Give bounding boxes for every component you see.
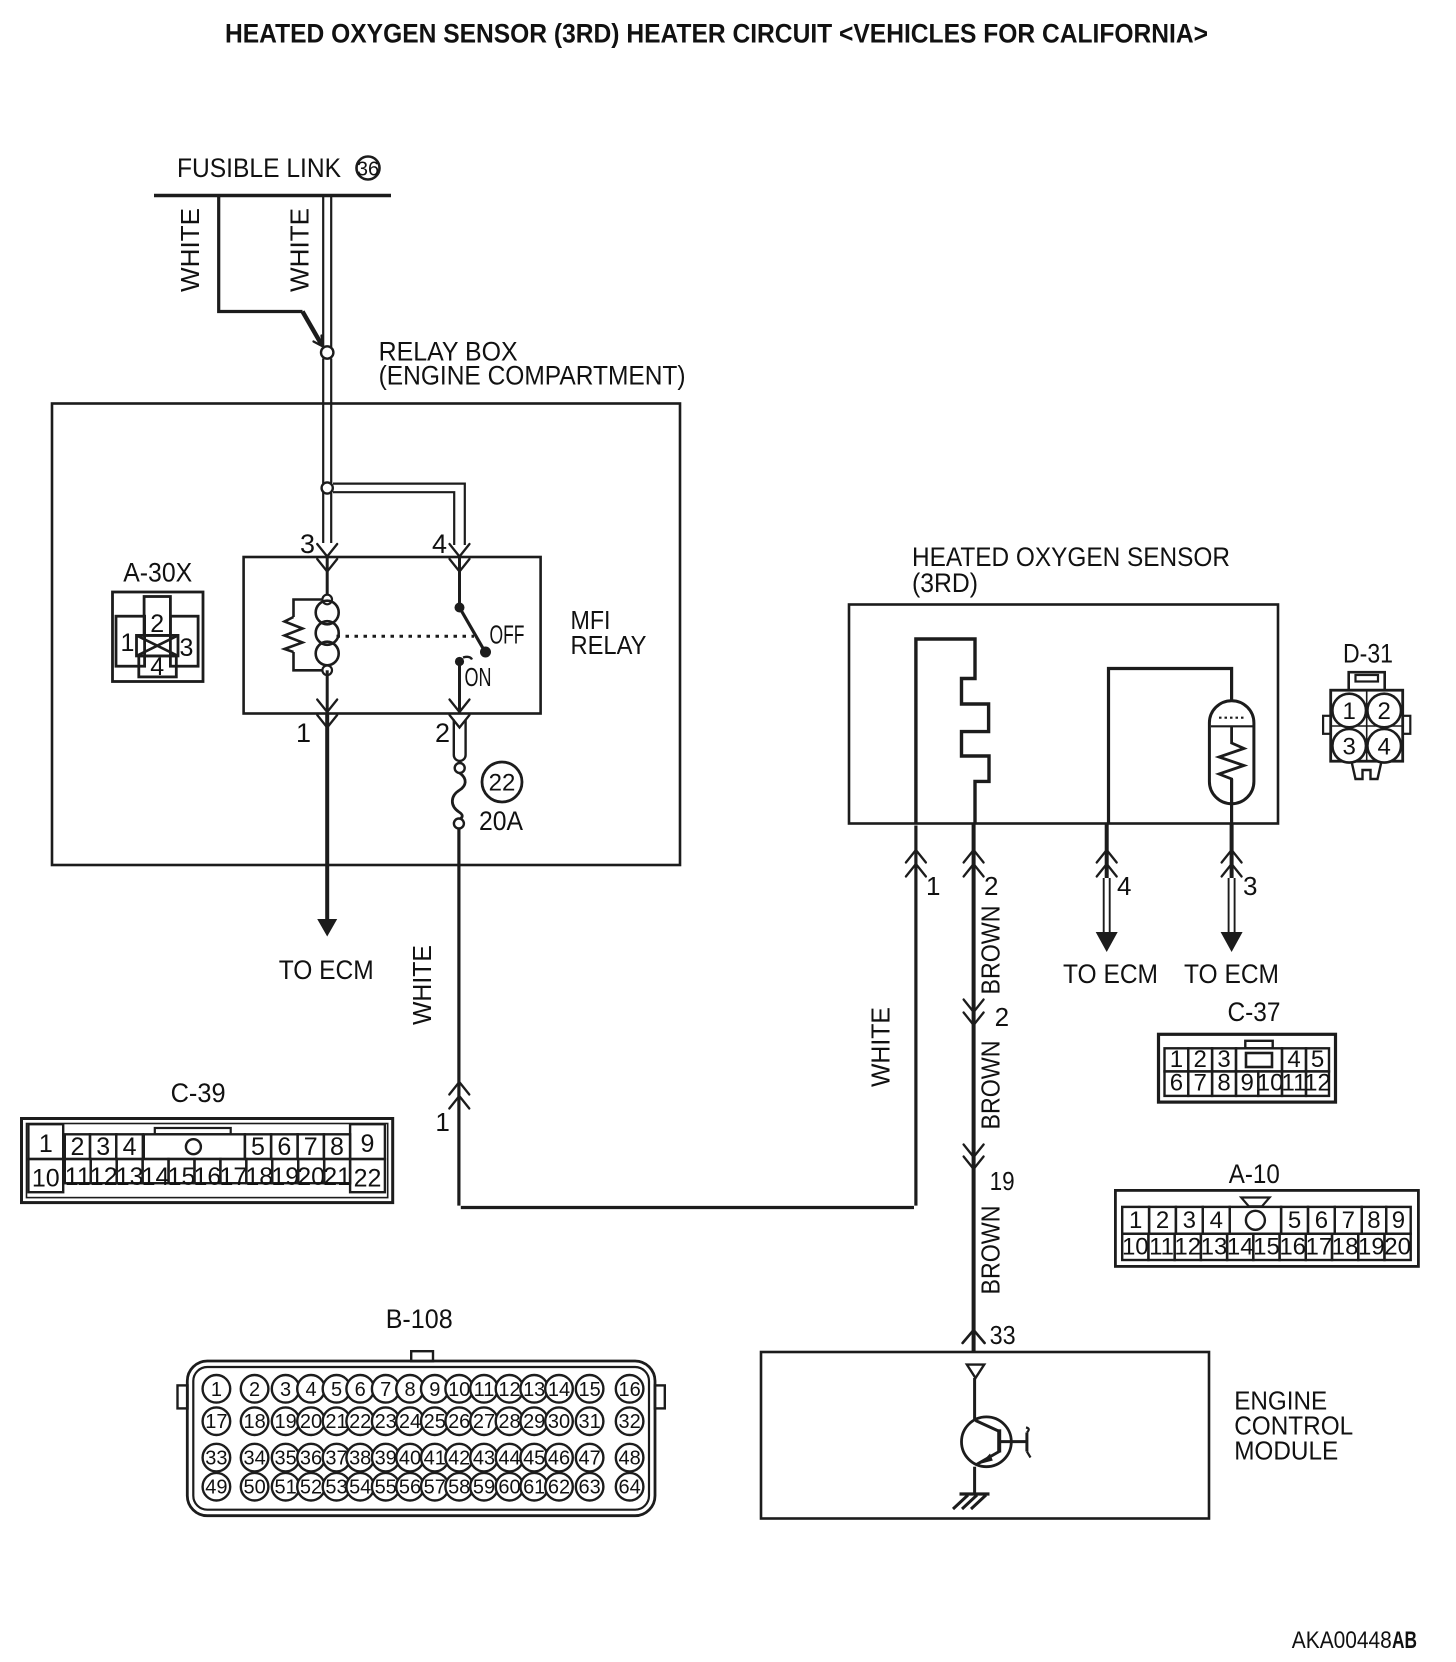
label OFF [490,620,525,650]
TO ECM arrow (pin3) [1221,932,1243,952]
svg-text:48: 48 [618,1448,640,1470]
connector C-39 [22,1119,393,1203]
svg-text:14: 14 [1227,1234,1254,1261]
svg-text:43: 43 [473,1448,495,1470]
svg-text:16: 16 [1279,1234,1306,1261]
svg-text:4: 4 [1117,871,1131,901]
svg-text:23: 23 [375,1411,397,1433]
svg-text:27: 27 [473,1411,495,1433]
C-39 pin arrows [449,1082,469,1109]
heater resistor zigzag [1219,726,1244,781]
label BROWN middle [976,1041,1006,1130]
svg-text:6: 6 [1315,1207,1328,1234]
svg-text:34: 34 [243,1448,265,1470]
svg-text:45: 45 [523,1448,545,1470]
TO ECM arrow (pin4) [1096,932,1118,952]
svg-text:B-108: B-108 [386,1304,453,1334]
svg-text:4: 4 [150,653,164,681]
connector C-37 [1159,1034,1336,1102]
svg-text:20: 20 [297,1163,325,1191]
TO ECM arrow (relay pin1) [317,919,337,937]
svg-text:38: 38 [349,1448,371,1470]
svg-text:8: 8 [330,1133,344,1161]
document number [1292,1627,1417,1654]
fusible link label [177,153,341,183]
svg-text:55: 55 [375,1477,397,1499]
transistor Q1 circle [962,1417,1012,1467]
svg-text:10: 10 [1122,1234,1149,1261]
svg-text:54: 54 [349,1477,371,1499]
connector A-30X label [123,558,192,588]
svg-text:3: 3 [1243,871,1257,901]
svg-text:20: 20 [1384,1234,1411,1261]
connector A-30X [113,592,204,682]
svg-text:FUSIBLE LINK: FUSIBLE LINK [177,153,341,183]
label TO ECM (left) [279,955,374,985]
svg-text:12: 12 [1304,1070,1331,1097]
svg-text:56: 56 [399,1477,421,1499]
svg-text:1: 1 [39,1130,53,1158]
fuse element squiggle [452,773,465,819]
wire white left [219,197,303,312]
coil node bottom [322,666,332,676]
svg-text:4: 4 [432,529,447,559]
svg-text:2: 2 [984,871,998,901]
svg-text:15: 15 [578,1379,600,1401]
wire white right (double line) [323,197,331,347]
svg-text:C-39: C-39 [171,1078,226,1108]
svg-text:51: 51 [274,1477,296,1499]
svg-text:19: 19 [271,1163,299,1191]
svg-text:53: 53 [325,1477,347,1499]
svg-text:2: 2 [150,610,164,638]
transistor collector lead [999,1440,1027,1443]
switch contact dot [455,657,472,666]
wire brown [972,823,976,1351]
svg-text:D-31: D-31 [1343,639,1393,669]
svg-text:WHITE: WHITE [866,1007,896,1087]
svg-text:5: 5 [251,1133,265,1161]
svg-text:5: 5 [331,1379,342,1401]
svg-text:TO ECM: TO ECM [279,955,374,985]
emitter wire to ground [973,1467,976,1494]
ECM input triangle [967,1365,984,1378]
sensor pin 3 arrows [1222,850,1242,877]
connector A-10 label [1229,1159,1280,1189]
wire switch top [458,557,461,603]
svg-text:ON: ON [465,662,492,692]
svg-text:63: 63 [578,1477,600,1499]
svg-text:32: 32 [618,1411,640,1433]
svg-text:AKA00448: AKA00448 [1292,1627,1392,1654]
ground symbol [953,1494,990,1509]
svg-text:13: 13 [116,1163,144,1191]
label WHITE left [175,208,205,292]
svg-text:BROWN: BROWN [976,1041,1006,1130]
svg-text:AB: AB [1392,1627,1417,1654]
svg-text:9: 9 [1392,1207,1405,1234]
pin 2 label [435,718,450,748]
svg-text:1: 1 [1129,1207,1142,1234]
svg-text:OFF: OFF [490,620,525,650]
svg-text:35: 35 [274,1448,296,1470]
resistor zigzag [285,617,303,652]
svg-text:36: 36 [300,1448,322,1470]
sensor element (zirconia) [916,639,989,823]
svg-text:4: 4 [123,1133,137,1161]
MFI relay box [244,557,541,714]
svg-text:58: 58 [448,1477,470,1499]
svg-text:RELAY: RELAY [571,630,647,660]
sensor pin 3 label [1243,871,1257,901]
svg-text:59: 59 [473,1477,495,1499]
svg-text:3: 3 [96,1133,110,1161]
svg-text:44: 44 [498,1448,520,1470]
svg-text:50: 50 [243,1477,265,1499]
collector end bar [1026,1428,1031,1458]
svg-text:MODULE: MODULE [1234,1436,1338,1466]
engine control module label [1234,1386,1353,1466]
svg-text:9: 9 [361,1130,375,1158]
svg-text:18: 18 [245,1163,273,1191]
svg-text:61: 61 [523,1477,545,1499]
svg-text:16: 16 [618,1379,640,1401]
heated oxygen sensor box [849,605,1278,824]
wire pin 3 stub [1229,823,1235,933]
svg-text:26: 26 [448,1411,470,1433]
label WHITE (sensor pin1) [866,1007,896,1087]
connector D-31 [1323,672,1410,779]
svg-text:2: 2 [249,1379,260,1401]
svg-text:37: 37 [325,1448,347,1470]
svg-text:30: 30 [548,1411,570,1433]
fuse holder capsule [454,720,466,761]
svg-text:18: 18 [243,1411,265,1433]
fuse circled 22 [482,762,522,802]
wire white left diagonal [303,312,322,345]
svg-text:5: 5 [1288,1207,1301,1234]
svg-text:40: 40 [399,1448,421,1470]
svg-text:(ENGINE COMPARTMENT): (ENGINE COMPARTMENT) [379,361,686,391]
wire tube to pin 3 [323,359,331,544]
svg-text:7: 7 [380,1379,391,1401]
svg-text:16: 16 [194,1163,222,1191]
svg-text:41: 41 [424,1448,446,1470]
svg-text:11: 11 [474,1379,495,1401]
sensor pin 4 arrows [1097,850,1117,877]
C-39 pin 1 label [435,1107,449,1137]
connector B-108 [178,1351,665,1516]
svg-text:17: 17 [219,1163,247,1191]
svg-text:6: 6 [277,1133,291,1161]
relay coil [316,601,339,666]
engine control module box [761,1352,1209,1519]
svg-text:7: 7 [1342,1207,1355,1234]
pin 3 arrows [317,544,337,572]
svg-text:11: 11 [1149,1234,1174,1261]
wire pin 4 stub [1104,823,1110,933]
svg-text:49: 49 [205,1477,227,1499]
svg-text:12: 12 [90,1163,118,1191]
svg-text:3: 3 [300,529,315,559]
brown wire arrows down (C-37 pin2) [964,1000,984,1026]
B-108 pin 33 label [990,1320,1016,1350]
svg-text:13: 13 [1201,1234,1228,1261]
fuse bottom node [454,819,464,829]
svg-text:TO ECM: TO ECM [1184,959,1279,989]
svg-text:15: 15 [168,1163,196,1191]
svg-text:19: 19 [990,1166,1015,1196]
svg-text:60: 60 [498,1477,520,1499]
resistor bracket [294,600,323,671]
wire white fuse run [459,826,916,1208]
svg-text:6: 6 [1170,1070,1183,1097]
svg-text:2: 2 [435,718,450,748]
wire tube branch to pin 4 [333,484,465,545]
svg-text:11: 11 [65,1163,91,1191]
svg-text:1: 1 [435,1107,449,1137]
sensor pin 1 arrows [906,850,926,877]
connector C-37 label [1228,997,1281,1027]
sensor pin 1 label [926,871,940,901]
svg-text:(3RD): (3RD) [912,568,978,598]
MFI relay label [571,605,647,660]
label TO ECM (pin3) [1184,959,1279,989]
svg-text:11: 11 [1282,1070,1307,1097]
brown wire arrows down (A-10 pin19) [964,1145,984,1170]
svg-text:22: 22 [489,770,516,797]
svg-text:A-10: A-10 [1229,1159,1280,1189]
svg-text:52: 52 [300,1477,322,1499]
C-37 pin 2 label [995,1002,1009,1032]
svg-text:12: 12 [1174,1234,1201,1261]
pin 3 label [300,529,315,559]
svg-text:HEATED OXYGEN SENSOR (3RD) HEA: HEATED OXYGEN SENSOR (3RD) HEATER CIRCUI… [225,19,1208,49]
svg-text:8: 8 [404,1379,415,1401]
switch pivot dot [455,603,465,613]
svg-text:15: 15 [1253,1234,1280,1261]
svg-text:10: 10 [1257,1070,1284,1097]
svg-text:1: 1 [926,871,940,901]
coil node top [322,595,332,605]
svg-text:57: 57 [424,1477,446,1499]
svg-text:7: 7 [304,1133,318,1161]
svg-text:BROWN: BROWN [976,905,1006,994]
heater capsule dotted top [1219,717,1245,719]
svg-text:8: 8 [1217,1070,1230,1097]
svg-text:21: 21 [325,1411,347,1433]
label BROWN upper [976,905,1006,994]
svg-text:17: 17 [205,1411,227,1433]
wire coil top [326,557,329,600]
svg-text:47: 47 [578,1448,600,1470]
fuse top node [455,763,465,773]
fusible link bus bar [154,194,391,198]
svg-text:3: 3 [280,1379,291,1401]
sensor pin 2 arrows [964,850,984,877]
svg-text:1: 1 [211,1379,222,1401]
sensor pin 2 label [984,871,998,901]
pin 2 arrows [450,700,470,728]
svg-text:WHITE: WHITE [175,208,205,292]
pin 1 label [296,718,311,748]
wire pin1 to ECM [325,714,329,920]
svg-text:10: 10 [32,1165,60,1193]
pin 1 arrows [317,700,337,728]
junction node ring top [321,346,333,358]
svg-text:8: 8 [1367,1207,1380,1234]
label WHITE (fuse wire) [407,945,437,1025]
svg-text:1: 1 [296,718,311,748]
svg-text:39: 39 [375,1448,397,1470]
transistor emitter diag [977,1452,1000,1465]
svg-text:TO ECM: TO ECM [1063,959,1158,989]
svg-text:2: 2 [995,1002,1009,1032]
svg-text:14: 14 [142,1163,170,1191]
B-108 pin 33 arrow [963,1330,985,1343]
svg-text:9: 9 [429,1379,440,1401]
transistor collector diag [976,1421,999,1432]
svg-text:4: 4 [305,1379,316,1401]
connector A-10 [1115,1190,1418,1266]
connector D-31 label [1343,639,1393,669]
svg-text:21: 21 [323,1163,351,1191]
svg-text:33: 33 [990,1320,1016,1350]
svg-text:2: 2 [1156,1207,1169,1234]
svg-text:WHITE: WHITE [407,945,437,1025]
sensor pin 4 label [1117,871,1131,901]
svg-text:22: 22 [354,1165,382,1193]
connector C-39 label [171,1078,226,1108]
svg-text:A-30X: A-30X [123,558,192,588]
ECM base wire [973,1378,976,1421]
relay box label [379,337,686,391]
switch dashed link [337,635,475,638]
svg-text:3: 3 [1343,733,1356,760]
svg-text:33: 33 [205,1448,227,1470]
svg-text:62: 62 [548,1477,570,1499]
heater feed wire [1109,669,1232,824]
svg-text:12: 12 [498,1379,520,1401]
svg-text:3: 3 [1183,1207,1196,1234]
svg-text:1: 1 [121,629,135,657]
pin 4 label [432,529,447,559]
pin 4 arrows [450,544,470,572]
connector B-108 label [386,1304,453,1334]
svg-text:42: 42 [448,1448,470,1470]
svg-text:22: 22 [349,1411,371,1433]
svg-text:20A: 20A [479,806,523,836]
svg-text:31: 31 [578,1411,600,1433]
svg-text:WHITE: WHITE [285,208,315,292]
svg-text:BROWN: BROWN [976,1206,1006,1295]
svg-text:C-37: C-37 [1228,997,1281,1027]
svg-text:14: 14 [548,1379,570,1401]
svg-text:19: 19 [274,1411,296,1433]
svg-text:1: 1 [1343,698,1356,725]
heater capsule [1209,701,1254,804]
relay box (engine compartment) [52,404,680,866]
svg-text:19: 19 [1358,1234,1385,1261]
junction node ring mid [322,482,333,493]
svg-text:9: 9 [1240,1070,1253,1097]
heated oxygen sensor label [912,542,1230,598]
label TO ECM (pin4) [1063,959,1158,989]
svg-text:4: 4 [1210,1207,1223,1234]
svg-text:36: 36 [357,159,379,181]
fusible link circled 36 [357,157,380,181]
svg-text:46: 46 [548,1448,570,1470]
heater out wire [1230,779,1233,823]
label ON [465,662,492,692]
svg-text:18: 18 [1332,1234,1359,1261]
transistor base bar [997,1429,1001,1452]
svg-text:2: 2 [70,1133,84,1161]
svg-text:24: 24 [399,1411,421,1433]
svg-text:7: 7 [1194,1070,1207,1097]
arrowhead into junction [314,336,323,347]
A-10 pin 19 label [990,1166,1015,1196]
svg-text:25: 25 [424,1411,446,1433]
title [225,19,1208,49]
svg-text:17: 17 [1306,1234,1333,1261]
svg-text:3: 3 [180,634,194,662]
wire switch bottom [458,662,461,714]
svg-text:10: 10 [448,1379,470,1401]
label 20A [479,806,523,836]
heater capsule divider [1211,725,1253,727]
svg-text:29: 29 [523,1411,545,1433]
label BROWN lower [976,1206,1006,1295]
label WHITE right [285,208,315,292]
svg-text:6: 6 [355,1379,366,1401]
svg-text:13: 13 [523,1379,545,1401]
svg-text:4: 4 [1378,733,1391,760]
svg-text:20: 20 [300,1411,322,1433]
svg-text:64: 64 [618,1477,640,1499]
svg-text:2: 2 [1378,698,1391,725]
svg-text:28: 28 [498,1411,520,1433]
wire coil bottom [326,670,329,713]
switch lever [460,608,492,658]
